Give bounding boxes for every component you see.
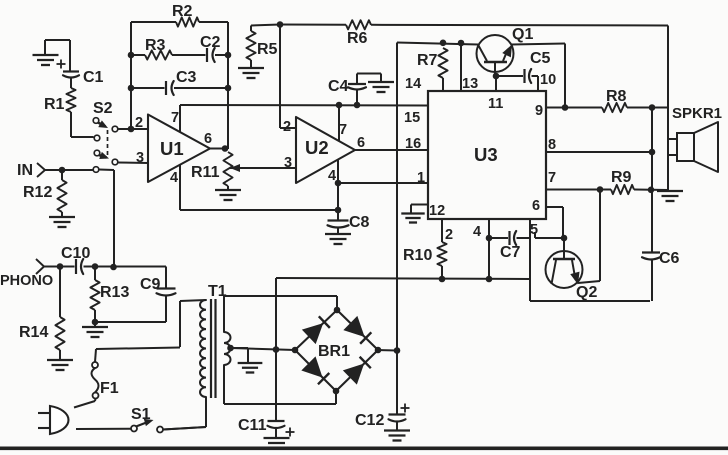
svg-text:R2: R2 [172,3,193,20]
svg-text:10: 10 [540,72,556,88]
svg-text:R9: R9 [611,169,632,186]
svg-text:U2: U2 [305,137,329,158]
svg-text:11: 11 [488,96,503,112]
svg-text:2: 2 [283,119,291,135]
svg-text:8: 8 [548,137,556,153]
svg-text:R12: R12 [23,184,52,201]
svg-text:S1: S1 [131,406,151,423]
svg-text:7: 7 [548,170,556,186]
svg-text:C10: C10 [61,245,90,262]
svg-text:9: 9 [535,103,543,119]
svg-text:C7: C7 [500,244,521,261]
svg-text:C12: C12 [355,412,384,429]
svg-text:R10: R10 [403,247,432,264]
svg-text:R13: R13 [100,284,129,301]
svg-text:7: 7 [339,122,347,138]
svg-text:C2: C2 [200,34,221,51]
svg-text:R7: R7 [417,52,438,69]
svg-text:R3: R3 [145,37,166,54]
svg-text:SPKR1: SPKR1 [672,105,722,122]
svg-text:BR1: BR1 [318,343,350,360]
svg-text:2: 2 [445,227,453,243]
svg-text:C9: C9 [140,276,161,293]
svg-text:C8: C8 [349,214,370,231]
svg-text:13: 13 [462,76,478,92]
svg-text:14: 14 [405,76,421,92]
svg-text:15: 15 [404,110,420,126]
svg-text:R1: R1 [44,96,65,113]
svg-text:R8: R8 [606,88,627,105]
svg-text:R6: R6 [347,30,368,47]
svg-text:4: 4 [170,170,178,186]
svg-text:U3: U3 [474,144,498,165]
svg-text:4: 4 [328,168,336,184]
svg-text:C1: C1 [83,69,104,86]
svg-text:3: 3 [284,155,292,171]
svg-text:C11: C11 [238,417,267,434]
svg-text:1: 1 [417,170,425,186]
svg-text:S2: S2 [93,100,113,117]
svg-text:6: 6 [532,198,540,214]
svg-text:PHONO: PHONO [0,273,53,289]
svg-text:R14: R14 [19,324,48,341]
svg-text:C4: C4 [328,78,349,95]
svg-text:4: 4 [473,224,481,240]
svg-text:U1: U1 [160,138,184,159]
svg-text:C5: C5 [530,50,551,67]
svg-text:2: 2 [135,115,143,131]
svg-text:3: 3 [136,150,144,166]
svg-text:F1: F1 [100,380,119,397]
svg-text:C3: C3 [176,69,197,86]
svg-text:Q2: Q2 [576,284,597,301]
svg-text:R11: R11 [191,164,220,181]
svg-text:IN: IN [17,162,33,179]
svg-text:12: 12 [429,203,445,219]
svg-text:7: 7 [171,110,179,126]
svg-text:Q1: Q1 [512,26,533,43]
svg-text:16: 16 [405,136,421,152]
svg-text:6: 6 [204,131,212,147]
svg-text:R5: R5 [257,41,278,58]
svg-text:6: 6 [357,135,365,151]
svg-text:C6: C6 [659,250,680,267]
